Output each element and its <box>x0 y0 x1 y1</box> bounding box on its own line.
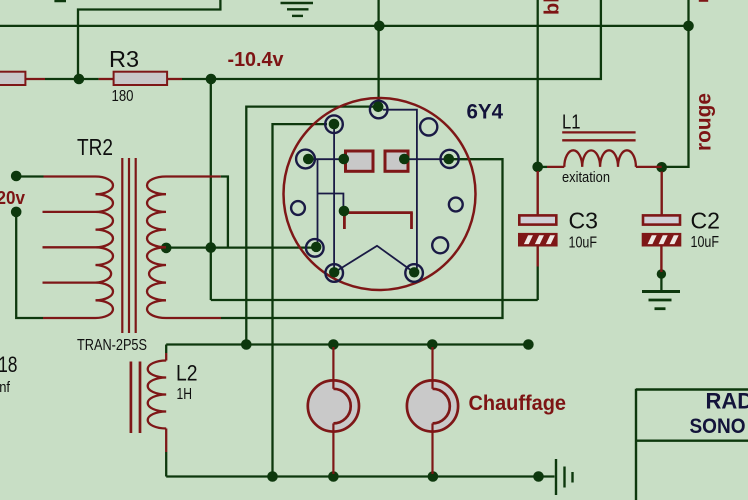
svg-text:10uF: 10uF <box>691 234 720 251</box>
svg-text:L1: L1 <box>562 110 581 133</box>
svg-text:TR2: TR2 <box>77 134 113 160</box>
svg-text:Chauffage: Chauffage <box>469 392 567 415</box>
svg-text:220v: 220v <box>0 187 26 208</box>
svg-text:-10.4v: -10.4v <box>228 48 285 71</box>
svg-text:R3: R3 <box>109 46 139 72</box>
svg-text:1nf: 1nf <box>0 379 11 396</box>
svg-text:C3: C3 <box>569 208 599 234</box>
svg-text:exitation: exitation <box>562 170 610 186</box>
svg-text:rouge: rouge <box>693 93 716 151</box>
svg-text:1H: 1H <box>177 386 193 403</box>
svg-text:TRAN-2P5S: TRAN-2P5S <box>77 337 147 354</box>
svg-text:SONO: SONO <box>690 414 746 438</box>
svg-text:180: 180 <box>112 88 134 105</box>
svg-text:L2: L2 <box>176 361 198 386</box>
svg-text:RAD: RAD <box>706 388 748 413</box>
svg-text:blu: blu <box>542 0 564 15</box>
svg-text:10uF: 10uF <box>569 234 598 251</box>
svg-text:C18: C18 <box>0 352 18 377</box>
svg-text:6Y4: 6Y4 <box>467 99 504 123</box>
svg-text:C2: C2 <box>691 208 721 234</box>
